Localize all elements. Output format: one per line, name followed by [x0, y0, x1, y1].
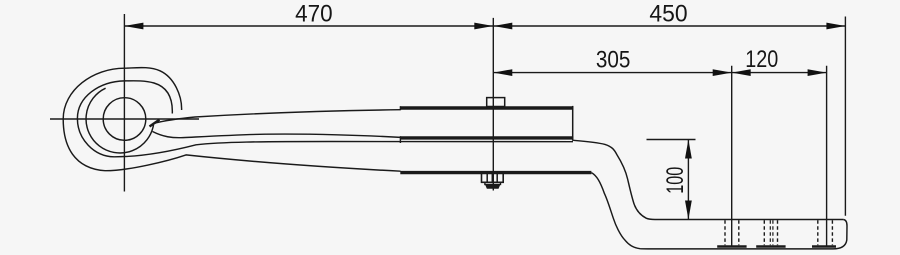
- svg-text:100: 100: [662, 167, 689, 194]
- hole H1 hidden line left: [724, 220, 726, 245]
- hole H2 hidden line left: [763, 220, 765, 245]
- arrow 305 left: [493, 69, 512, 76]
- center bolt washer / chamfered end: [485, 182, 501, 188]
- hole H1 hidden line right: [738, 220, 740, 245]
- clamp plate left edge top: [399, 106, 401, 110]
- hole H2 hidden line right: [777, 220, 779, 245]
- arrow 450 left: [493, 23, 512, 30]
- clamp plate top edge (thick): [400, 106, 573, 110]
- hole H3 seat mark: [812, 245, 836, 247]
- eye wrapper leaf inner boundary + leaf2 top line: [77, 81, 573, 157]
- arrow 470 right: [474, 23, 493, 30]
- dimension line 120: [732, 72, 827, 74]
- leaf1 bottom taper line: [153, 132, 401, 138]
- svg-text:305: 305: [596, 47, 631, 74]
- centerline eye horizontal: [50, 118, 199, 120]
- dimension line 470: [124, 25, 493, 27]
- leaf1 bottom clamped edge (thick): [400, 136, 573, 139]
- eye wrapper leaf outer boundary + leaf2 bottom taper line: [63, 68, 400, 172]
- arrow 120 right: [808, 69, 827, 76]
- svg-text:450: 450: [649, 0, 687, 27]
- svg-text:120: 120: [745, 46, 778, 73]
- arrow 100 bottom: [685, 201, 692, 220]
- 450 right extension line: [844, 17, 846, 216]
- arrow 305 right: [713, 69, 732, 76]
- leaf2 bottom S-bend + flat end bottom edge + right rounded edge: [591, 173, 847, 249]
- hole H3 hidden line left: [817, 220, 819, 245]
- hole H3 centerline (120 right extension): [826, 66, 828, 248]
- leaf1 top taper line: [153, 110, 401, 124]
- clamp plate right edge: [572, 106, 574, 141]
- hole H1 seat mark: [717, 245, 746, 247]
- arrow 100 top: [685, 140, 692, 159]
- centerline eye vertical (470 left extension): [123, 14, 125, 192]
- dimension line 450: [493, 25, 845, 27]
- hole H1 centerline (305/120 extension): [731, 66, 733, 248]
- dimension line 100: [687, 140, 689, 220]
- hole H2 seat mark: [756, 245, 785, 247]
- leaf1 eye tangent wedge: [150, 120, 160, 127]
- arrow 470 left: [124, 23, 143, 30]
- arrow 450 right: [826, 23, 845, 30]
- hole H3 hidden line right: [831, 220, 833, 245]
- center bolt head: [487, 98, 505, 107]
- leaf2 top line after clamp + S-bend + flat end top edge: [573, 140, 843, 219]
- hole H2 inner bore hidden pair: [769, 220, 771, 245]
- svg-text:470: 470: [295, 0, 333, 27]
- center bolt axis (470/450/305 extension): [492, 18, 494, 191]
- arrow 120 left: [732, 69, 751, 76]
- center bolt nut: [482, 173, 504, 182]
- eye bushing bore circle: [103, 98, 146, 141]
- leaf2 bottom clamped edge (thick): [400, 171, 591, 174]
- clamp plate left edge bottom: [399, 136, 401, 143]
- dimension line 305: [493, 72, 731, 74]
- eye main-leaf inner wrap arc: [86, 88, 153, 153]
- 100 top extension line: [647, 139, 696, 141]
